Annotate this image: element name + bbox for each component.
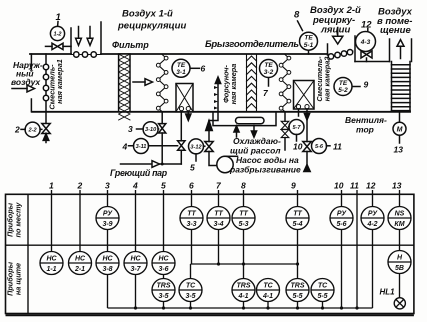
svg-text:7: 7 — [216, 181, 222, 191]
svg-text:ТС: ТС — [318, 283, 328, 290]
instrument circle TC 5-5 — [311, 279, 334, 302]
instrument circle TE 3-1 — [172, 59, 200, 77]
wire: column 4 — [135, 190, 137, 308]
svg-text:1: 1 — [49, 181, 54, 191]
svg-text:ТЕ: ТЕ — [264, 62, 273, 69]
arrow: outside air entry — [12, 85, 35, 92]
instrument circle TRS 4-1 — [232, 279, 255, 302]
svg-text:Греющий пар: Греющий пар — [110, 168, 168, 178]
wire: box2 left stub — [298, 109, 300, 116]
svg-text:3-12: 3-12 — [190, 144, 202, 150]
svg-text:Воздух 1-й: Воздух 1-й — [122, 9, 173, 20]
instrument circle TC 3-5 — [179, 279, 202, 302]
svg-text:НС: НС — [46, 256, 57, 263]
valve of pos.11 — [303, 142, 311, 152]
valve of pos.4 — [178, 141, 185, 151]
arrow: recirculation-1 air down arrows — [76, 27, 93, 46]
spray eliminator (chevron column) — [247, 55, 257, 112]
svg-text:5-2: 5-2 — [338, 87, 348, 94]
lamp HL1 — [394, 298, 405, 309]
instrument circle TRS 3-5 — [152, 279, 175, 302]
svg-text:разбрызгивание: разбрызгивание — [229, 165, 301, 175]
svg-text:по месту: по месту — [14, 202, 23, 238]
wire: box2 right line down with arrow — [304, 109, 309, 142]
cooling coil 2 (zigzag with loops) — [279, 55, 291, 112]
table label column divider — [27, 194, 29, 313]
instrument circle NS 3-7 — [124, 252, 147, 275]
instrument circle 1-2 with valve — [46, 22, 72, 50]
rotated chamber labels — [48, 56, 332, 110]
wire: spray water riser — [206, 121, 213, 142]
svg-text:2-1: 2-1 — [74, 266, 85, 273]
svg-text:3-9: 3-9 — [102, 221, 112, 228]
steam main (Greyushchiy par) — [121, 161, 182, 168]
svg-text:3-6: 3-6 — [158, 266, 168, 273]
table row divider — [6, 244, 414, 246]
svg-text:ТЕ: ТЕ — [177, 62, 186, 69]
svg-text:4: 4 — [132, 181, 138, 191]
wire: coil2 brine drop — [284, 112, 286, 122]
svg-text:HL1: HL1 — [380, 288, 396, 297]
motor M of fan — [393, 112, 406, 143]
svg-text:2-2: 2-2 — [28, 128, 38, 134]
svg-text:НС: НС — [158, 256, 169, 263]
svg-text:3-11: 3-11 — [136, 144, 147, 150]
svg-text:ТС: ТС — [186, 283, 196, 290]
wire: coil2 line tail — [284, 138, 286, 150]
svg-text:тор: тор — [356, 125, 374, 135]
instrument circle NS 2-1 — [69, 252, 92, 275]
svg-text:5-1: 5-1 — [304, 42, 314, 49]
svg-text:РУ: РУ — [103, 211, 113, 218]
instrument circle texts (diagram) — [28, 32, 403, 151]
svg-text:3-7: 3-7 — [130, 266, 141, 273]
spray header with nozzles — [209, 77, 221, 121]
svg-text:3-5: 3-5 — [158, 293, 168, 300]
svg-text:5: 5 — [190, 163, 195, 173]
svg-text:4-1: 4-1 — [237, 293, 248, 300]
wire: column 7 — [218, 190, 220, 264]
wire: riser down to pump suction — [209, 152, 217, 166]
instrument circle NS 3-8 — [96, 252, 119, 275]
svg-text:5-6: 5-6 — [336, 221, 346, 228]
fan (ladder symbol) — [392, 62, 411, 112]
svg-text:2: 2 — [77, 181, 83, 191]
svg-text:10: 10 — [334, 181, 344, 191]
svg-text:НС: НС — [102, 256, 113, 263]
svg-text:щий рассол: щий рассол — [230, 146, 281, 156]
valve of pos.3 on coil1 line — [159, 124, 166, 133]
svg-text:2: 2 — [14, 125, 20, 135]
svg-text:5-7: 5-7 — [292, 125, 301, 131]
wire: valve 4 to steam main — [180, 150, 182, 164]
wire: column 11 — [356, 190, 358, 308]
outside air louvre line with circles — [43, 54, 48, 123]
wire: column 6 — [191, 190, 193, 264]
svg-text:5-5: 5-5 — [317, 293, 327, 300]
svg-text:КМ: КМ — [394, 221, 404, 228]
svg-text:Охлаждаю-: Охлаждаю- — [233, 136, 281, 146]
svg-text:РУ: РУ — [337, 211, 347, 218]
instrument circle TT 5-4 — [286, 207, 309, 230]
svg-text:ТRS: ТRS — [291, 283, 305, 290]
wire: TC 5-5 drop — [322, 302, 324, 309]
wire: recirculation-1 opening right wall — [100, 22, 102, 54]
arrow: air flow inside duct — [133, 79, 153, 86]
svg-text:ТТ: ТТ — [187, 211, 196, 218]
svg-text:3-5: 3-5 — [185, 293, 195, 300]
instrument circle N 5V — [388, 251, 411, 274]
svg-text:5-4: 5-4 — [292, 221, 302, 228]
wire: column 12 — [372, 190, 374, 308]
wire: outlet duct walls — [390, 39, 412, 62]
svg-text:1-2: 1-2 — [53, 32, 62, 38]
instrument circle 5-7 — [289, 120, 304, 142]
svg-text:3-10: 3-10 — [145, 127, 157, 133]
svg-text:5В: 5В — [395, 265, 404, 272]
wire: coil1 line to steam main — [161, 133, 163, 164]
svg-text:3-3: 3-3 — [186, 221, 196, 228]
svg-text:6: 6 — [201, 64, 206, 74]
svg-text:ная камера2: ная камера2 — [323, 57, 332, 102]
svg-text:щение: щение — [380, 25, 411, 36]
svg-text:воздух: воздух — [11, 77, 41, 87]
svg-text:8: 8 — [294, 10, 300, 21]
wire: duct top wall left segment — [30, 53, 71, 55]
svg-text:ная камера1: ная камера1 — [55, 59, 64, 104]
svg-text:12: 12 — [366, 181, 376, 191]
valve lower on coil2 line — [281, 130, 289, 138]
svg-text:ТЕ: ТЕ — [339, 80, 348, 87]
svg-text:4-2: 4-2 — [366, 221, 377, 228]
svg-text:8: 8 — [241, 181, 246, 191]
damper louvre circles on recirc-2 opening (slanted) — [328, 50, 354, 60]
svg-text:5-3: 5-3 — [238, 221, 248, 228]
wire: column 5 — [163, 190, 165, 308]
wire: duct bottom wall — [32, 111, 410, 113]
wire: column 1 — [51, 190, 53, 252]
wire: column 3 — [107, 190, 109, 308]
pump (water spray pump) — [217, 156, 238, 172]
wire: left inlet wall stubs — [30, 54, 32, 112]
svg-text:ная камера: ная камера — [229, 64, 238, 105]
wire: stem below valve 2-2 with up arrow — [45, 134, 47, 143]
wire: column 8 — [243, 190, 245, 308]
instrument circle NS 3-6 — [152, 252, 175, 275]
wire: recirculation-1 opening left wall — [70, 28, 72, 54]
instrument circle 3-11 — [129, 139, 178, 154]
svg-text:Фильтр: Фильтр — [112, 40, 149, 50]
instrument circle TT 3-4 — [207, 207, 230, 230]
svg-text:9: 9 — [291, 181, 296, 191]
svg-text:3-2: 3-2 — [264, 69, 274, 76]
wire: brine outlet stub (down arrow) — [251, 126, 256, 138]
rotated table row labels — [6, 202, 23, 296]
table column number labels — [49, 181, 402, 191]
drain pan under spray chamber — [213, 112, 276, 126]
svg-text:Насос воды на: Насос воды на — [236, 155, 299, 165]
svg-text:ТЕ: ТЕ — [304, 35, 313, 42]
wire: column 10 — [341, 190, 343, 308]
wire: fan box top — [355, 61, 390, 63]
wire: box1 condensate stub with arrow — [186, 112, 191, 121]
svg-text:3: 3 — [128, 124, 133, 134]
heater box 2 (cross box) — [294, 81, 315, 110]
svg-text:3: 3 — [105, 181, 110, 191]
instrument circle TRS 5-5 — [286, 279, 309, 302]
valve 2-2 (vertical hourglass) — [42, 124, 50, 134]
svg-text:5-5: 5-5 — [292, 293, 302, 300]
svg-text:3-8: 3-8 — [102, 266, 112, 273]
svg-text:1: 1 — [56, 12, 61, 23]
wire: duct top wall main segment — [101, 53, 328, 55]
junction dots — [134, 262, 359, 309]
wire: TC 4-1 drop — [267, 302, 269, 309]
svg-text:ТRS: ТRS — [157, 283, 171, 290]
instrument circle 5-6 — [312, 139, 331, 154]
svg-text:НС: НС — [75, 256, 86, 263]
arrow: air to room (open up arrow) — [397, 40, 404, 59]
svg-text:5-6: 5-6 — [315, 144, 324, 150]
svg-text:1-1: 1-1 — [46, 266, 56, 273]
svg-text:ТRS: ТRS — [237, 283, 251, 290]
svg-text:НС: НС — [130, 256, 141, 263]
svg-text:7: 7 — [263, 88, 269, 98]
wire: column 13 — [399, 190, 401, 298]
instrument circle NS KM — [388, 207, 411, 230]
svg-text:ТТ: ТТ — [293, 211, 302, 218]
svg-text:13: 13 — [394, 145, 404, 155]
instrument circle 3-12 — [189, 139, 205, 161]
heater coil 1 (zigzag with loops) — [156, 55, 168, 112]
table frame — [6, 194, 414, 313]
svg-text:4-3: 4-3 — [360, 39, 371, 46]
wire: column 9 — [297, 190, 299, 308]
wire: box1 steam line down — [180, 112, 182, 141]
svg-text:11: 11 — [333, 142, 342, 152]
instrument circle NS 1-1 — [40, 252, 63, 275]
svg-text:5: 5 — [161, 181, 166, 191]
instrument circle 2-2 — [21, 122, 42, 137]
svg-text:4-1: 4-1 — [262, 293, 273, 300]
wire: column 2 — [79, 190, 81, 252]
svg-text:РУ: РУ — [368, 211, 378, 218]
wire: bottom bus — [108, 307, 373, 309]
damper louvre circles on recirc-1 opening — [71, 52, 101, 57]
instrument circle TE 3-2 — [260, 60, 278, 87]
svg-text:Вентиля-: Вентиля- — [345, 115, 387, 125]
instrument circle RU 5-6 — [330, 207, 353, 230]
svg-text:3-4: 3-4 — [213, 221, 223, 228]
wire: connector bus mid — [191, 264, 298, 308]
svg-text:NS: NS — [395, 211, 405, 218]
heater box 1 (cross box) — [176, 84, 193, 112]
svg-text:Брызгоотделитель: Брызгоотделитель — [205, 39, 299, 50]
svg-text:6: 6 — [189, 181, 194, 191]
wire: line below valve 11 with up arrow — [304, 152, 310, 172]
svg-text:9: 9 — [364, 80, 369, 90]
svg-text:13: 13 — [392, 181, 402, 191]
wire: coil1 steam drop — [161, 112, 163, 123]
svg-text:12: 12 — [361, 20, 372, 31]
svg-text:на щите: на щите — [14, 263, 23, 295]
instrument circle TC 4-1 — [257, 279, 280, 302]
svg-text:ТТ: ТТ — [239, 211, 248, 218]
instrument circle TT 3-3 — [180, 207, 203, 230]
instrument circle TT 5-3 — [232, 207, 255, 230]
wire: recirculation-2 right wall down to fan box — [354, 36, 356, 62]
svg-text:ляции: ляции — [320, 25, 350, 36]
valve upper on coil2 line — [281, 121, 289, 129]
svg-text:М: М — [397, 126, 403, 133]
instrument circle RU 4-2 — [361, 207, 384, 230]
svg-text:рециркуляции: рециркуляции — [117, 21, 186, 32]
instrument circle 4-3 with valve — [356, 29, 376, 62]
svg-text:ТТ: ТТ — [214, 211, 223, 218]
instrument circle RU 3-9 — [96, 207, 119, 230]
svg-text:11: 11 — [350, 181, 359, 191]
wire: recirculation-2 left wall — [327, 44, 329, 55]
instrument circle TE 5-2 — [334, 78, 360, 96]
svg-text:ТС: ТС — [263, 283, 273, 290]
valve of pos.5 — [205, 142, 213, 152]
instrument circle TE 5-1 — [298, 21, 318, 54]
wire: brine inlet stub (up arrow) — [234, 126, 239, 137]
arrow: recirculation-2 air down arrow — [333, 28, 343, 45]
svg-text:4: 4 — [122, 142, 128, 152]
instrument circle 3-10 — [137, 122, 159, 137]
svg-text:10: 10 — [293, 142, 303, 152]
svg-text:3-1: 3-1 — [176, 69, 186, 76]
filter (hatched) — [119, 54, 130, 120]
